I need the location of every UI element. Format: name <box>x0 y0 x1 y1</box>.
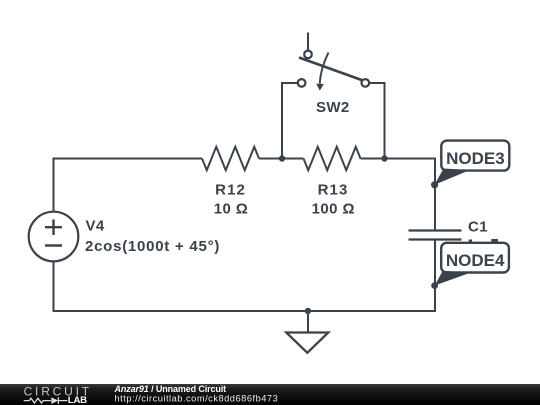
svg-text:2cos(1000t + 45°): 2cos(1000t + 45°) <box>85 238 220 255</box>
svg-text:SW2: SW2 <box>316 99 350 116</box>
svg-text:100 Ω: 100 Ω <box>312 200 355 217</box>
svg-text:NODE3: NODE3 <box>446 149 505 168</box>
svg-text:R12: R12 <box>215 182 246 199</box>
svg-text:R13: R13 <box>318 182 349 199</box>
svg-text:NODE4: NODE4 <box>446 251 505 270</box>
svg-text:10 Ω: 10 Ω <box>214 200 248 217</box>
svg-text:LAB: LAB <box>68 395 87 405</box>
svg-text:Anzar91 / Unnamed Circuit: Anzar91 / Unnamed Circuit <box>114 384 227 394</box>
svg-text:http://circuitlab.com/ck8dd686: http://circuitlab.com/ck8dd686fb473 <box>115 394 279 404</box>
svg-text:V4: V4 <box>86 217 105 234</box>
svg-text:C1: C1 <box>468 219 488 236</box>
